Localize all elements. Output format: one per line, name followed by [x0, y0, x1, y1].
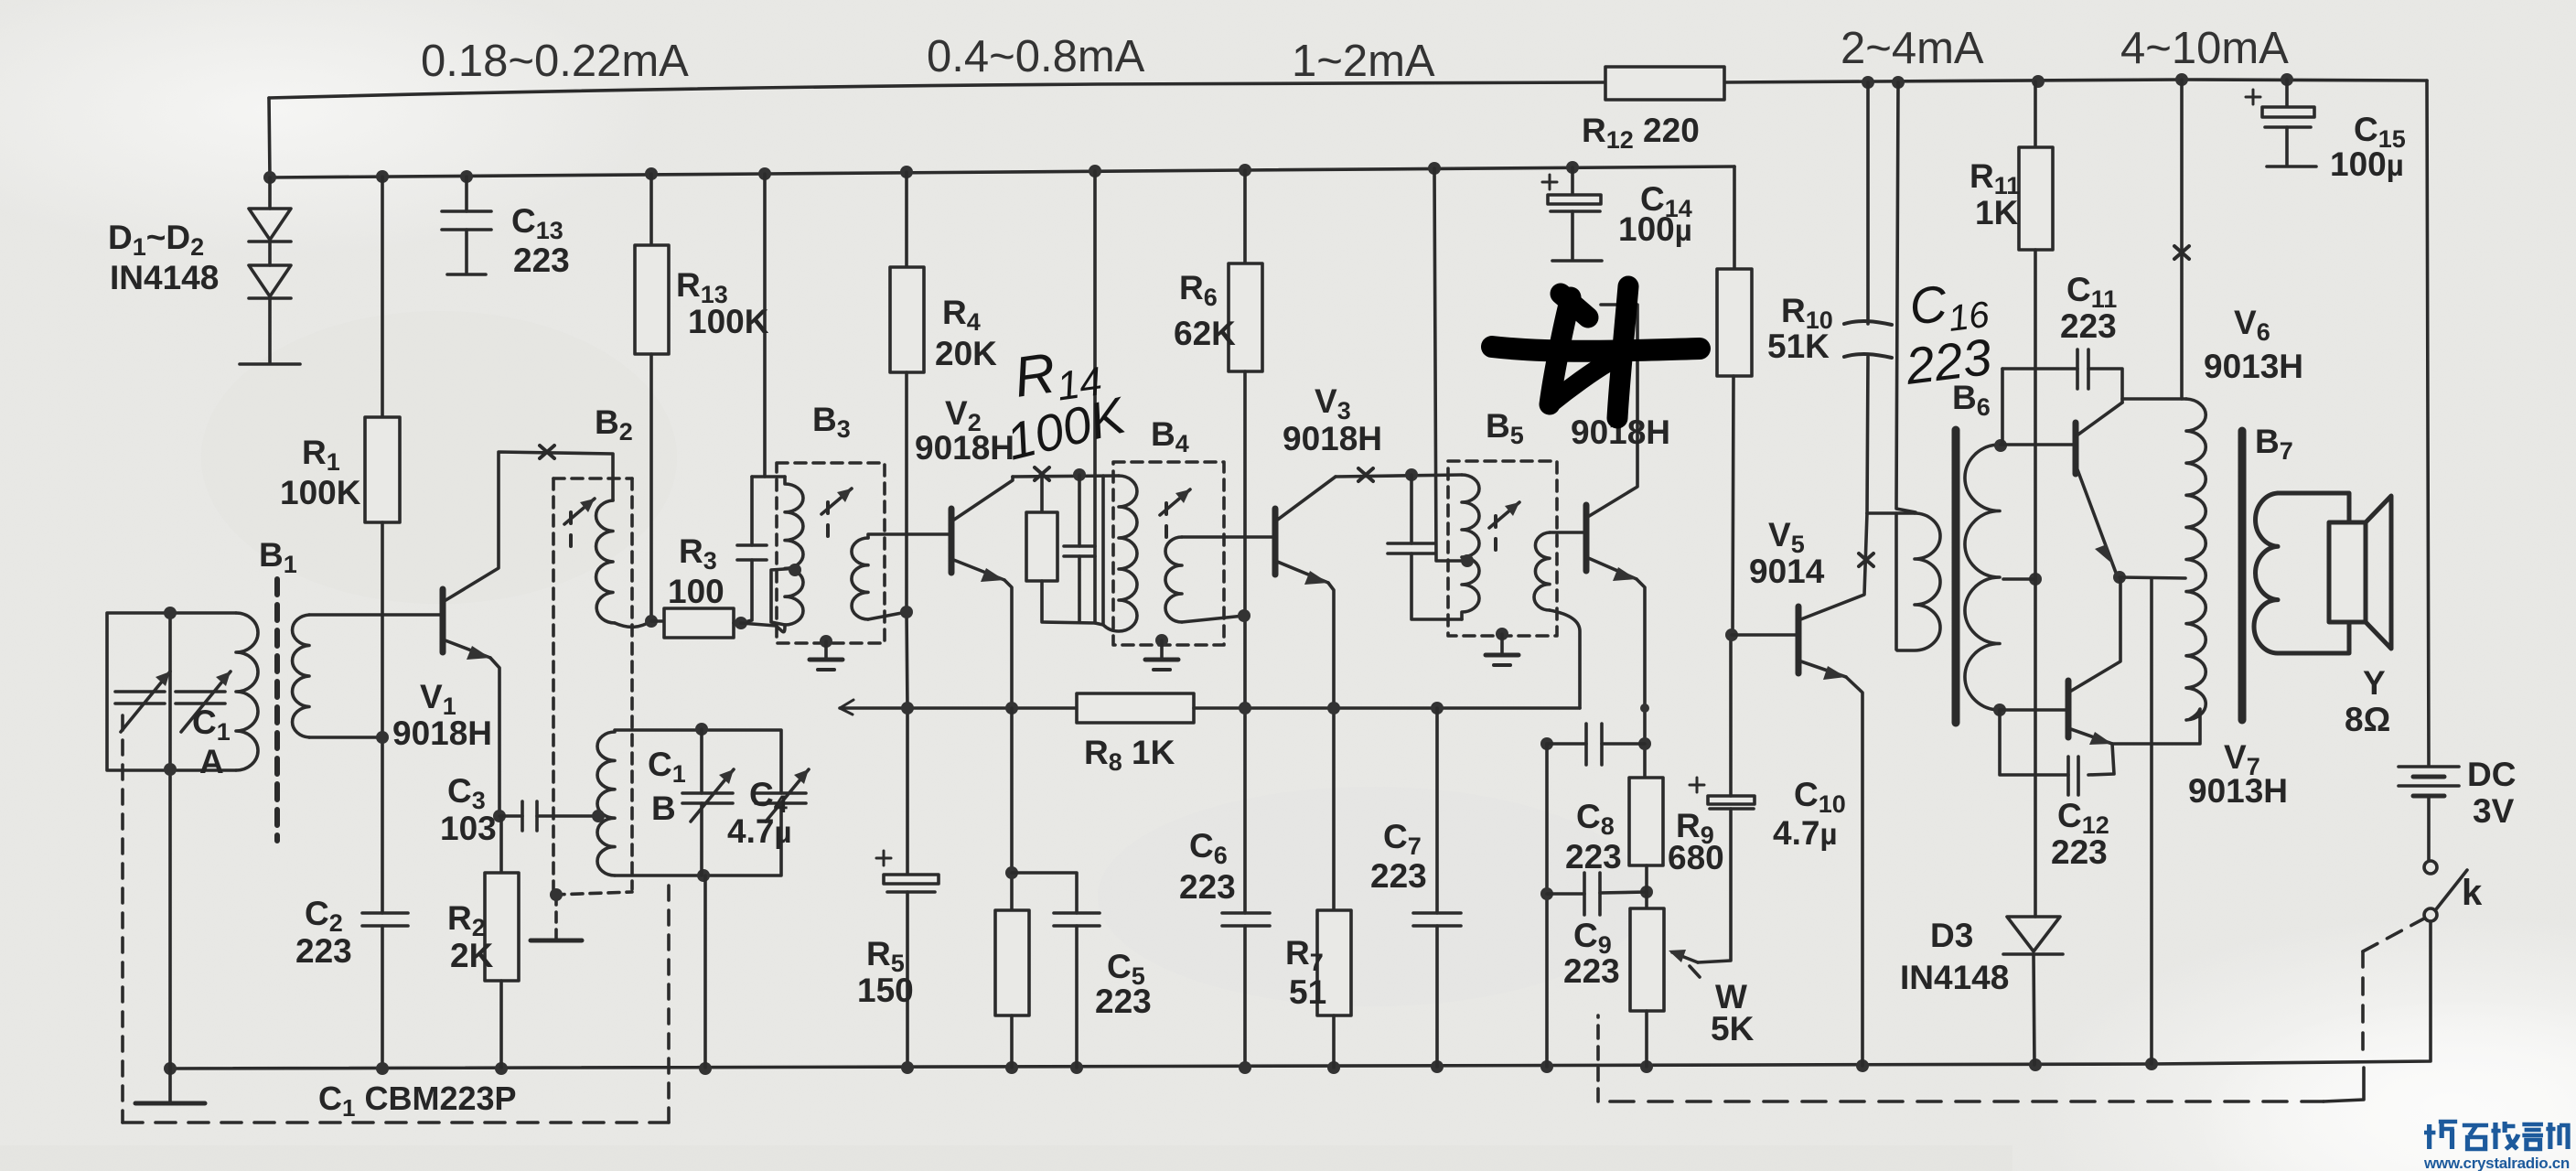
wire: top bus left corner drop: [269, 98, 270, 177]
resistor R4: [905, 172, 908, 267]
resistor R12: [1605, 67, 1724, 100]
core adjust arrow B3: [821, 489, 852, 514]
variable capacitor C1-B section 2: [756, 793, 806, 803]
coil B2 primary: [596, 500, 615, 623]
svg-text:100µ: 100µ: [1618, 210, 1692, 248]
ferrite rod B1 (dashed): [274, 579, 280, 841]
svg-text:3V: 3V: [2473, 792, 2515, 830]
transistor V1 collector: [443, 452, 613, 602]
svg-text:4~10mA: 4~10mA: [2120, 24, 2289, 73]
wire: R4 to C4: [907, 612, 907, 875]
transistor V5 base bar: [1796, 607, 1802, 673]
svg-text:9013H: 9013H: [2204, 348, 2303, 385]
transformer B5 shield (dashed): [1448, 461, 1557, 636]
resistor R1: [381, 177, 384, 417]
wire: B4 secondary top to V3 base: [1182, 535, 1275, 539]
switch K: [2424, 861, 2437, 874]
resistor R13: [649, 174, 653, 245]
gang link dashes + rotor ground: [554, 895, 558, 939]
wire: B4 secondary bottom to R6: [1182, 616, 1244, 622]
transistor V7 emitter: [2068, 728, 2112, 744]
transformer B4 shield (dashed): [1113, 462, 1224, 645]
transistor V4 base bar: [1583, 505, 1590, 571]
resistor R2: [499, 816, 503, 873]
coil B4 primary: [1101, 476, 1105, 625]
node: top bus junctions: [1862, 73, 2293, 89]
transistor V2 emitter: [951, 559, 1004, 580]
svg-text:9018H: 9018H: [1283, 420, 1382, 457]
svg-text:100K: 100K: [280, 474, 361, 511]
svg-text:1~2mA: 1~2mA: [1292, 37, 1435, 86]
wire: V5 base: [1732, 633, 1798, 637]
wire: B6 primary feed: [1896, 82, 1916, 512]
wire: B3 supply feed: [765, 174, 785, 477]
wire: ground bus: [167, 1064, 2152, 1069]
resistor R14 100K (damping): [1040, 477, 1044, 512]
svg-text:IN4148: IN4148: [110, 259, 219, 296]
core adjust arrow B4: [1160, 489, 1190, 515]
svg-text:100K: 100K: [688, 303, 769, 340]
capacitor C3: [499, 814, 522, 818]
arrow trimmer 2: [181, 671, 231, 732]
wire: B1 secondary top to V1 base: [309, 613, 443, 617]
capacitor C11: [2001, 369, 2004, 445]
resistor R7: [1332, 708, 1336, 910]
svg-text:100: 100: [668, 573, 724, 610]
svg-text:103: 103: [440, 810, 497, 847]
svg-text:223: 223: [2060, 307, 2117, 345]
watermark logo (blue): [2424, 1122, 2568, 1149]
wire: V7 base: [2000, 708, 2066, 712]
transistor V2 collector: [951, 477, 1013, 521]
wire: V7 emitter to B7 bottom: [2112, 709, 2200, 744]
svg-text:8Ω: 8Ω: [2345, 701, 2390, 738]
marker scribble over V4: [1561, 294, 1588, 317]
glyph ji: [2546, 1123, 2568, 1149]
transistor V3 base bar: [1272, 509, 1279, 575]
capacitor C2: [362, 911, 408, 915]
capacitor C13: [465, 177, 468, 211]
capacitor C6: [1222, 911, 1270, 915]
wire: emitter feedback bus: [840, 706, 1077, 710]
transistor V7 base bar: [2066, 681, 2072, 737]
svg-text:2K: 2K: [450, 937, 494, 974]
wire: B5 secondary top to V4 base: [1550, 531, 1586, 534]
variable capacitor C1-A tank box: [107, 613, 236, 770]
core adjust arrow B2: [564, 499, 595, 524]
wire: B1 secondary bottom to R1/C2: [309, 736, 382, 739]
resistor R11 1K: [2034, 81, 2037, 147]
glyph shou: [2491, 1122, 2517, 1149]
svg-text:150: 150: [857, 972, 914, 1009]
svg-text:51K: 51K: [1767, 328, 1830, 365]
potentiometer W 5K: [1630, 908, 1664, 1011]
svg-text:223: 223: [2051, 833, 2108, 871]
wire: B4 supply feed: [1093, 171, 1097, 623]
transistor V3 collector: [1275, 477, 1336, 521]
glyph kuang: [2424, 1122, 2457, 1149]
variable capacitor C1-B box: [615, 730, 781, 876]
capacitor B4 tank: [1078, 475, 1081, 546]
svg-text:k: k: [2462, 873, 2483, 913]
coil B2 secondary (oscillator): [597, 732, 615, 876]
ground B3: [820, 635, 832, 648]
svg-text:IN4148: IN4148: [1900, 959, 2009, 996]
transformer B2 shield (dashed): [553, 477, 632, 480]
transistor V5 collector: [1798, 513, 1867, 620]
svg-text:223: 223: [1565, 838, 1622, 876]
coil B5 secondary: [1534, 532, 1550, 610]
wire: V6 base: [2001, 443, 2073, 446]
coil B4 secondary: [1165, 537, 1182, 622]
transistor V4 collector: [1586, 305, 1637, 518]
svg-text:B: B: [651, 790, 676, 827]
resistor R6: [1243, 170, 1247, 263]
transformer B6: [1894, 513, 1898, 650]
core B6: [1952, 430, 1960, 723]
transistor V4 emitter: [1586, 557, 1637, 579]
capacitor C7: [1435, 708, 1439, 913]
dashed gang frame left: [121, 715, 124, 1123]
wire: B5 supply feed: [1434, 168, 1467, 561]
capacitor C10 electrolytic: [1708, 796, 1755, 804]
current labels: [421, 24, 2289, 86]
node: ground bus junctions: [164, 1058, 2158, 1075]
transistor V1 base bar: [440, 589, 446, 652]
ground left end: [168, 769, 172, 1101]
svg-text:223: 223: [1563, 952, 1620, 990]
svg-text:62K: 62K: [1174, 315, 1236, 352]
capacitor C12: [2088, 744, 2114, 775]
diode D3 IN4148: [2007, 917, 2060, 951]
capacitor C8: [1540, 737, 1651, 750]
svg-text:R12 220: R12 220: [1582, 112, 1700, 154]
coil B7 secondary (heavy): [2254, 493, 2278, 653]
coil B6 secondary: [1965, 445, 2000, 710]
coil B5 primary: [1462, 475, 1479, 619]
resistor R9 680: [1629, 778, 1663, 865]
transformer B3 shield (dashed): [777, 463, 885, 643]
capacitor C4 electrolytic: [884, 875, 939, 884]
resistor R5: [1010, 708, 1014, 910]
glyph yin: [2522, 1124, 2543, 1149]
transistor V7 collector: [2068, 579, 2120, 693]
coil B3 primary: [785, 477, 803, 625]
svg-text:51: 51: [1289, 973, 1326, 1011]
wire: B3 secondary top to V2 base: [868, 534, 951, 538]
svg-text:223: 223: [1902, 328, 1994, 395]
variable capacitor C1-B section 1: [700, 729, 703, 793]
transistor V3 emitter: [1275, 561, 1328, 583]
svg-text:D1~D2: D1~D2: [108, 219, 204, 261]
svg-text:D3: D3: [1930, 917, 1973, 954]
wire: B3 secondary bottom to R4: [868, 612, 907, 619]
svg-text:4.7µ: 4.7µ: [1773, 814, 1837, 852]
transistor V6 collector: [2076, 403, 2122, 436]
svg-text:5K: 5K: [1711, 1010, 1755, 1047]
coil B3 secondary: [852, 538, 868, 619]
transistor V2 base bar: [949, 509, 955, 573]
x mark: [540, 446, 554, 458]
svg-text:DC: DC: [2467, 756, 2516, 793]
wire: R3 to B3 primary bottom: [741, 623, 785, 632]
ground B4: [1155, 634, 1168, 647]
core B7: [2238, 431, 2247, 720]
wire: right edge battery feed: [2427, 81, 2429, 765]
variable capacitor C1-A section plates: [115, 692, 165, 704]
svg-text:20K: 20K: [935, 335, 997, 372]
capacitor C5: [1012, 873, 1077, 913]
svg-text:9014: 9014: [1749, 553, 1825, 590]
capacitor C14 electrolytic: [1571, 167, 1574, 195]
svg-text:9018H: 9018H: [915, 429, 1014, 467]
resistor R10: [1733, 167, 1736, 269]
capacitor B5 tank: [1410, 475, 1413, 543]
svg-text:223: 223: [295, 932, 352, 970]
transistor V1 emitter: [443, 639, 490, 658]
svg-text:100µ: 100µ: [2330, 145, 2404, 183]
svg-text:0.18~0.22mA: 0.18~0.22mA: [421, 37, 689, 86]
resistor R3 100: [651, 619, 664, 623]
battery DC 3V: [2399, 765, 2459, 768]
svg-text:223: 223: [1095, 983, 1152, 1020]
diode D1 D2 IN4148: [268, 177, 272, 209]
svg-text:2~4mA: 2~4mA: [1841, 24, 1984, 73]
transistor V6 base bar: [2073, 423, 2079, 474]
svg-text:A: A: [199, 743, 224, 780]
capacitor C15 electrolytic: [2285, 80, 2289, 107]
svg-text:9013H: 9013H: [2188, 772, 2288, 810]
node: bus junctions row2: [263, 161, 1579, 184]
coil B1 primary (right edge of tank): [236, 613, 258, 770]
speaker Y: [2278, 493, 2349, 522]
svg-text:223: 223: [1370, 857, 1427, 895]
svg-text:223: 223: [1179, 868, 1236, 906]
wire: B5 secondary bottom down: [1550, 610, 1580, 708]
arrow trimmer 1: [121, 671, 170, 732]
ground B5: [1496, 628, 1508, 640]
svg-text:4.7µ: 4.7µ: [727, 812, 791, 850]
transformer B7 primary: [2186, 399, 2206, 720]
resistor R8 1K: [1077, 693, 1194, 723]
svg-text:223: 223: [513, 242, 570, 279]
svg-text:9018H: 9018H: [392, 714, 492, 752]
coil B1 secondary: [293, 615, 309, 737]
wire: C1-B bottom to ground bus: [703, 876, 707, 1068]
core adjust arrow B5: [1489, 502, 1519, 528]
svg-text:0.4~0.8mA: 0.4~0.8mA: [927, 32, 1145, 81]
dashed gang link to switch K: [1610, 1100, 2324, 1103]
wire: output node to B7 centre: [2120, 577, 2185, 578]
svg-text:www.crystalradio.cn: www.crystalradio.cn: [2423, 1155, 2570, 1171]
svg-text:Y: Y: [2363, 664, 2386, 702]
wire: B7 top feed from bus: [2180, 80, 2184, 399]
wire: B6 center tap: [2003, 577, 2035, 581]
wire: B3 primary tap: [771, 568, 798, 625]
node: R13 B2 R3 junction: [645, 615, 658, 628]
capacitor C16 (pen added): [1866, 82, 1870, 324]
svg-text:680: 680: [1668, 839, 1724, 876]
wire: top supply bus: [269, 82, 1605, 98]
svg-text:R8 1K: R8 1K: [1084, 734, 1175, 776]
glyph shi: [2463, 1125, 2488, 1149]
transistor V5 emitter: [1798, 661, 1846, 677]
wire: second supply bus: [270, 167, 1734, 177]
capacitor B3 tank: [750, 477, 754, 545]
transistor V6 emitter: [2076, 465, 2116, 573]
svg-text:1K: 1K: [1975, 194, 2019, 231]
capacitor C9: [1545, 744, 1549, 1067]
